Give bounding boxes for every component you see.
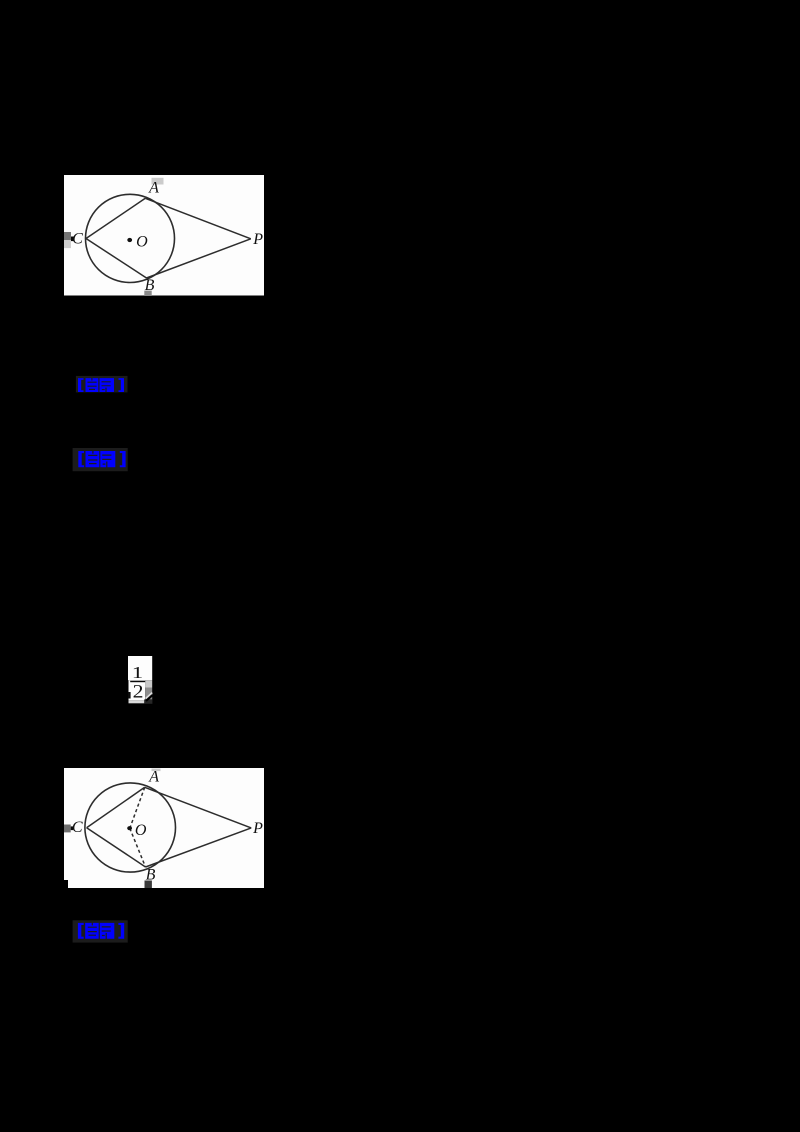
white canvas of figure 1 — [64, 175, 264, 296]
char 分 — [86, 378, 99, 392]
left handle black nub — [71, 826, 73, 830]
svg-text:A: A — [148, 179, 159, 196]
char 解 — [86, 451, 100, 467]
center dot O — [127, 826, 132, 830]
svg-text:1: 1 — [132, 663, 143, 682]
cursor black slash — [146, 695, 152, 701]
bottom dark corner block — [144, 699, 152, 704]
figure 1: circle O with tangents PA, PB and chords CA, CB — [64, 175, 264, 296]
white box upper — [128, 656, 152, 680]
tangent AP — [145, 787, 252, 828]
circle O — [85, 782, 176, 871]
medium gray patch — [145, 687, 152, 700]
char 答 — [100, 451, 115, 467]
chord CB — [86, 239, 147, 279]
header 2: blue bold 【解答】 — [70, 446, 130, 473]
top-middle selection handle — [152, 768, 161, 771]
chord CA — [87, 787, 145, 827]
svg-text:O: O — [135, 821, 147, 838]
header 3: blue bold 【点评】 — [70, 918, 130, 945]
left bracket 【 — [78, 922, 84, 938]
svg-text:B: B — [145, 277, 155, 294]
svg-text:2: 2 — [133, 681, 144, 702]
svg-text:C: C — [72, 230, 83, 247]
svg-text:O: O — [136, 233, 148, 250]
left black mark — [128, 692, 131, 699]
left bracket 【 — [78, 451, 84, 467]
left bracket 【 — [78, 378, 84, 392]
svg-text:P: P — [252, 819, 263, 836]
svg-text:P: P — [252, 231, 263, 248]
right bracket 】 — [118, 922, 124, 938]
bottom-left black notch — [64, 880, 68, 889]
white box lower — [128, 680, 145, 700]
svg-text:B: B — [146, 866, 156, 883]
right bracket 】 — [120, 451, 126, 467]
chord CA — [86, 198, 145, 238]
header 1: blue bold 【分析】 — [72, 375, 130, 395]
char 析 — [100, 378, 115, 392]
white canvas of figure 2 — [64, 768, 264, 889]
cursor light slash — [146, 692, 153, 698]
figure 2: circle O with tangents and dashed radii AO, OB — [64, 768, 264, 889]
char 点 — [85, 922, 99, 938]
dashed radius OB — [130, 828, 146, 867]
fraction 1/2 with cursor artifacts — [128, 656, 153, 704]
chord CB — [87, 827, 146, 866]
tangent BP — [146, 827, 252, 866]
fraction bar — [130, 681, 145, 682]
light gray patch right of bar — [145, 680, 152, 687]
left-middle selection handle (light lower part) — [64, 240, 71, 248]
svg-text:A: A — [148, 768, 159, 785]
top-middle selection handle — [152, 178, 164, 185]
bottom-middle selection handle — [145, 880, 152, 889]
svg-text:C: C — [72, 819, 83, 836]
right bracket 】 — [119, 378, 125, 392]
char 评 — [100, 922, 115, 938]
bottom-middle selection handle — [144, 291, 151, 296]
tangent BP — [147, 239, 251, 278]
circle O — [86, 194, 175, 282]
left handle black nub — [71, 237, 74, 242]
center dot O — [127, 238, 132, 242]
left-middle selection handle — [64, 824, 71, 832]
left-middle selection handle (dark) — [64, 232, 71, 240]
tangent AP — [145, 198, 251, 239]
bottom light strip — [128, 700, 144, 703]
dashed radius AO — [130, 787, 145, 828]
